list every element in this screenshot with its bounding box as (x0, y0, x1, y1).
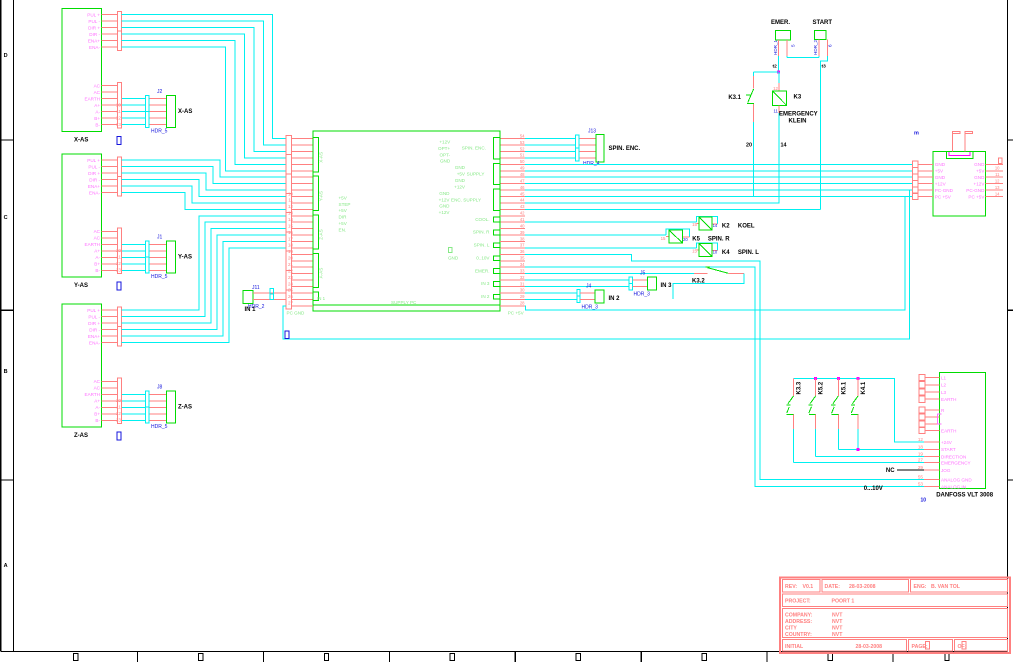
svg-text:41: 41 (520, 217, 525, 222)
svg-text:K4: K4 (722, 250, 730, 256)
svg-text:KLEIN: KLEIN (789, 119, 807, 125)
svg-text:D: D (4, 53, 8, 59)
svg-text:16: 16 (288, 230, 294, 235)
svg-text:48: 48 (520, 172, 525, 177)
svg-text:PC-GND: PC-GND (966, 188, 985, 193)
svg-text:EARTH: EARTH (941, 397, 957, 402)
svg-text:+12V: +12V (439, 210, 451, 215)
svg-text:13: 13 (995, 185, 1000, 190)
svg-text:EARTH: EARTH (85, 97, 101, 102)
svg-text:J11: J11 (252, 285, 260, 291)
svg-text:L1: L1 (941, 376, 947, 381)
svg-text:36: 36 (520, 249, 525, 254)
svg-text:Z-AS: Z-AS (74, 433, 88, 439)
svg-text:ENA-: ENA- (89, 340, 100, 345)
svg-text:K2: K2 (722, 223, 730, 229)
svg-text:15: 15 (692, 249, 697, 254)
svg-text:GND: GND (455, 165, 466, 170)
svg-text:+5V: +5V (457, 172, 466, 177)
svg-text:+24V: +24V (941, 440, 953, 445)
svg-text:ENA-: ENA- (89, 45, 100, 50)
svg-text:52: 52 (520, 146, 525, 151)
svg-text:X-AS: X-AS (74, 138, 88, 144)
svg-text:15: 15 (692, 222, 697, 227)
svg-text:EN.: EN. (339, 228, 347, 233)
svg-text:SPIN. ENC.: SPIN. ENC. (462, 146, 486, 151)
svg-text:A+: A+ (94, 399, 100, 404)
svg-text:DIRECTION: DIRECTION (941, 454, 966, 459)
svg-text:13: 13 (116, 122, 121, 127)
svg-text:PUL -: PUL - (88, 164, 100, 169)
svg-text:AC: AC (94, 229, 101, 234)
svg-text:DIR +: DIR + (88, 321, 100, 326)
svg-text:34: 34 (520, 262, 525, 267)
svg-text:15: 15 (288, 223, 294, 228)
svg-text:DIR -: DIR - (89, 177, 100, 182)
svg-text:28-03-2008: 28-03-2008 (856, 644, 883, 650)
svg-text:IN 2: IN 2 (609, 296, 621, 302)
svg-text:START: START (941, 447, 956, 452)
svg-text:C: C (4, 215, 8, 221)
svg-text:PC +5V: PC +5V (968, 194, 985, 199)
svg-text:J1: J1 (157, 235, 163, 241)
svg-text:STEP: STEP (339, 202, 351, 207)
svg-text:Z-AS: Z-AS (178, 405, 192, 411)
svg-text:SUPPLY PC: SUPPLY PC (391, 300, 417, 305)
svg-text:0..10V: 0..10V (476, 256, 490, 261)
svg-text:PC GND: PC GND (287, 311, 306, 316)
svg-text:GND: GND (439, 204, 450, 209)
svg-text:A-: A- (95, 255, 100, 260)
svg-text:IN 3: IN 3 (481, 281, 490, 286)
svg-text:L3: L3 (941, 390, 947, 395)
svg-text:51: 51 (520, 153, 525, 158)
svg-text:J13: J13 (588, 129, 596, 135)
svg-text:ENC. SUPPLY: ENC. SUPPLY (451, 197, 481, 202)
svg-text:6: 6 (828, 44, 833, 47)
svg-text:B-: B- (95, 418, 100, 423)
svg-text:EARTH: EARTH (85, 392, 101, 397)
svg-text:L2: L2 (941, 383, 947, 388)
svg-text:EMER.: EMER. (771, 20, 790, 26)
svg-text:12: 12 (116, 115, 121, 120)
svg-text:23: 23 (288, 275, 294, 280)
svg-text:+12V: +12V (454, 184, 466, 189)
svg-text:A-: A- (95, 110, 100, 115)
svg-text:B+: B+ (94, 262, 100, 267)
svg-text:V0.1: V0.1 (803, 584, 814, 590)
svg-text:38: 38 (520, 236, 525, 241)
svg-text:42: 42 (520, 211, 525, 216)
svg-text:13: 13 (116, 268, 121, 273)
svg-text:PROJECT:: PROJECT: (785, 599, 811, 605)
svg-text:OPT+: OPT+ (438, 146, 450, 151)
svg-text:SPIN. R: SPIN. R (708, 237, 730, 243)
svg-text:SPIN. L: SPIN. L (474, 243, 490, 248)
svg-text:ENA+: ENA+ (88, 334, 100, 339)
svg-text:14: 14 (713, 223, 718, 228)
svg-text:ANALOG IN: ANALOG IN (941, 485, 966, 490)
svg-text:B-: B- (95, 123, 100, 128)
svg-text:CITY: CITY (785, 626, 797, 632)
svg-text:19: 19 (918, 451, 924, 456)
svg-text:13: 13 (116, 418, 121, 423)
svg-text:29: 29 (918, 465, 924, 470)
svg-text:44: 44 (520, 198, 525, 203)
svg-text:PC +5V: PC +5V (508, 311, 525, 316)
svg-text:J8: J8 (157, 385, 163, 391)
svg-text:DATE:: DATE: (825, 584, 841, 590)
svg-text:47: 47 (520, 178, 525, 183)
svg-text:54: 54 (520, 133, 525, 138)
svg-text:NVT: NVT (832, 626, 843, 632)
svg-text:12: 12 (995, 178, 1000, 183)
svg-text:COUNTRY:: COUNTRY: (785, 632, 812, 638)
svg-text:ANALOG GND: ANALOG GND (941, 477, 972, 482)
svg-text:GND: GND (974, 162, 985, 167)
svg-text:B+: B+ (94, 412, 100, 417)
svg-text:HDR_5: HDR_5 (151, 129, 168, 135)
svg-text:10: 10 (921, 498, 927, 504)
svg-text:K5.1: K5.1 (841, 381, 847, 394)
svg-text:J2: J2 (157, 89, 163, 95)
svg-text:10: 10 (713, 250, 718, 255)
svg-text:EARTH: EARTH (941, 428, 957, 433)
svg-text:PUL +: PUL + (87, 158, 100, 163)
svg-text:14: 14 (288, 217, 294, 222)
svg-text:25: 25 (288, 288, 294, 293)
svg-text:A+: A+ (94, 249, 100, 254)
svg-text:GND: GND (440, 159, 451, 164)
svg-text:EARTH: EARTH (85, 242, 101, 247)
svg-text:20: 20 (683, 237, 688, 242)
svg-text:11: 11 (288, 198, 293, 203)
svg-text:5: 5 (791, 44, 796, 47)
svg-text:PUL +: PUL + (87, 12, 100, 17)
svg-text:13: 13 (288, 211, 294, 216)
svg-text:GND: GND (935, 162, 946, 167)
svg-text:DIR: DIR (339, 215, 348, 220)
svg-text:21: 21 (288, 262, 294, 267)
svg-text:K3.1: K3.1 (728, 95, 741, 101)
svg-text:t3: t3 (822, 64, 827, 70)
svg-text:31: 31 (520, 281, 525, 286)
svg-text:27: 27 (918, 457, 924, 462)
svg-text:+5V: +5V (339, 208, 348, 213)
svg-text:37: 37 (520, 243, 525, 248)
svg-text:GND: GND (455, 178, 466, 183)
svg-text:43: 43 (520, 204, 525, 209)
svg-text:10: 10 (995, 166, 1000, 171)
svg-text:K4.1: K4.1 (861, 381, 867, 394)
svg-text:IN 3: IN 3 (661, 283, 673, 289)
svg-text:KOEL: KOEL (738, 223, 755, 229)
svg-text:49: 49 (520, 166, 525, 171)
svg-text:AC: AC (94, 386, 101, 391)
svg-text:35: 35 (520, 256, 525, 261)
svg-text:COOL.: COOL. (475, 217, 489, 222)
svg-text:J4: J4 (586, 283, 592, 289)
svg-text:AC: AC (94, 236, 101, 241)
svg-text:K3.3: K3.3 (797, 381, 803, 394)
svg-text:33: 33 (520, 268, 525, 273)
svg-text:40: 40 (520, 223, 525, 228)
svg-text:t2: t2 (773, 64, 778, 70)
svg-text:+5V: +5V (339, 221, 348, 226)
svg-text:A-: A- (95, 405, 100, 410)
svg-text:17: 17 (288, 236, 294, 241)
svg-text:HDR_3: HDR_3 (634, 292, 651, 298)
svg-text:AC: AC (94, 379, 101, 384)
svg-text:K5.2: K5.2 (819, 381, 825, 394)
svg-text:10: 10 (288, 191, 294, 196)
svg-text:B. VAN TOL: B. VAN TOL (931, 584, 961, 590)
svg-text:12: 12 (116, 411, 121, 416)
svg-text:X-AS: X-AS (319, 152, 324, 163)
svg-text:EMERGENCY: EMERGENCY (941, 460, 971, 465)
svg-text:DIR +: DIR + (88, 171, 100, 176)
svg-text:30: 30 (520, 288, 525, 293)
svg-text:HDR_5: HDR_5 (151, 274, 168, 280)
svg-text:INITIAL: INITIAL (785, 644, 804, 650)
svg-text:18: 18 (288, 243, 294, 248)
svg-text:SPIN. ENC.: SPIN. ENC. (609, 146, 641, 152)
svg-text:19: 19 (288, 249, 294, 254)
svg-text:53: 53 (918, 482, 924, 487)
svg-text:GND: GND (974, 175, 985, 180)
svg-text:NC: NC (886, 468, 895, 474)
svg-text:PC +5V: PC +5V (935, 194, 952, 199)
svg-text:IN 2: IN 2 (481, 294, 490, 299)
svg-text:0...10V: 0...10V (864, 486, 883, 492)
svg-text:HDR_5: HDR_5 (151, 424, 168, 430)
svg-text:A+: A+ (94, 103, 100, 108)
svg-text:20: 20 (746, 143, 752, 149)
svg-text:HDR_1: HDR_1 (773, 39, 778, 55)
svg-text:ENA+: ENA+ (88, 184, 100, 189)
svg-text:20: 20 (288, 256, 294, 261)
svg-text:46: 46 (520, 185, 525, 190)
svg-text:GND: GND (448, 256, 459, 261)
svg-text:START: START (813, 20, 833, 26)
svg-text:12: 12 (773, 86, 778, 91)
svg-text:SPIN. R: SPIN. R (473, 230, 490, 235)
svg-text:X-AS: X-AS (178, 109, 192, 115)
svg-text:COMPANY:: COMPANY: (785, 613, 813, 619)
svg-text:ADDRESS:: ADDRESS: (785, 619, 812, 625)
svg-text:53: 53 (520, 140, 525, 145)
svg-text:REV:: REV: (785, 584, 797, 590)
svg-text:J5: J5 (640, 271, 646, 277)
svg-text:B+: B+ (94, 116, 100, 121)
svg-text:GND: GND (439, 191, 450, 196)
svg-text:NVT: NVT (832, 619, 843, 625)
svg-text:27: 27 (288, 301, 294, 306)
svg-text:SPIN. L: SPIN. L (738, 250, 759, 256)
svg-text:K3: K3 (794, 95, 802, 101)
svg-text:28-03-2008: 28-03-2008 (849, 584, 876, 590)
svg-text:28: 28 (520, 301, 525, 306)
svg-text:12: 12 (116, 261, 121, 266)
svg-text:18: 18 (918, 444, 924, 449)
svg-text:50: 50 (520, 159, 525, 164)
svg-text:32: 32 (520, 275, 525, 280)
svg-text:DIR +: DIR + (88, 25, 100, 30)
svg-text:DIR -: DIR - (89, 32, 100, 37)
svg-text:24: 24 (288, 281, 294, 286)
svg-text:PUL -: PUL - (88, 19, 100, 24)
svg-text:EMERGENCY: EMERGENCY (779, 112, 818, 118)
svg-text:11: 11 (773, 109, 778, 114)
svg-text:OPT-: OPT- (439, 152, 450, 157)
svg-text:15: 15 (661, 236, 666, 241)
svg-text:+12V: +12V (439, 139, 451, 144)
svg-text:PUL -: PUL - (88, 314, 100, 319)
svg-text:55: 55 (918, 475, 924, 480)
svg-text:ENG:: ENG: (914, 584, 927, 590)
svg-text:GND: GND (935, 175, 946, 180)
svg-text:DIR -: DIR - (89, 327, 100, 332)
svg-text:12: 12 (918, 437, 924, 442)
svg-text:K5: K5 (692, 237, 700, 243)
svg-text:EMER.: EMER. (475, 268, 490, 273)
svg-text:Y-AS: Y-AS (178, 255, 192, 261)
svg-text:HDR_2: HDR_2 (813, 39, 818, 55)
svg-text:Y-AS: Y-AS (74, 283, 88, 289)
svg-text:14: 14 (995, 191, 1000, 196)
svg-text:+5V: +5V (339, 195, 348, 200)
svg-text:ENA+: ENA+ (88, 38, 100, 43)
svg-text:39: 39 (520, 230, 525, 235)
svg-text:NVT: NVT (832, 613, 843, 619)
svg-text:B-: B- (95, 268, 100, 273)
svg-text:A-AS: A-AS (319, 268, 324, 279)
svg-text:29: 29 (520, 294, 525, 299)
svg-text:+12V: +12V (935, 182, 947, 187)
svg-text:ENA-: ENA- (89, 190, 100, 195)
svg-text:PC-GND: PC-GND (935, 188, 954, 193)
svg-text:JOG: JOG (941, 468, 951, 473)
svg-text:IN 1: IN 1 (245, 307, 257, 313)
svg-text:POORT 1: POORT 1 (832, 599, 855, 605)
svg-text:45: 45 (520, 191, 525, 196)
svg-text:12: 12 (288, 204, 294, 209)
svg-text:22: 22 (288, 268, 294, 273)
svg-text:Z-AS: Z-AS (319, 229, 324, 239)
svg-text:NVT: NVT (832, 632, 843, 638)
svg-text:+12V: +12V (439, 197, 451, 202)
svg-text:m: m (914, 131, 919, 137)
svg-text:SUPPLY: SUPPLY (467, 172, 485, 177)
svg-text:+5V: +5V (976, 169, 985, 174)
svg-text:PUL +: PUL + (87, 308, 100, 313)
svg-text:11: 11 (995, 172, 1000, 177)
svg-text:Y-AS: Y-AS (319, 191, 324, 201)
svg-text:AC: AC (94, 84, 101, 89)
svg-text:B: B (4, 369, 8, 375)
svg-text:IN 1: IN 1 (317, 296, 326, 301)
svg-text:+5V: +5V (935, 169, 944, 174)
svg-text:AC: AC (94, 90, 101, 95)
svg-text:14: 14 (781, 143, 787, 149)
svg-text:DANFOSS VLT 3008: DANFOSS VLT 3008 (936, 493, 994, 499)
svg-text:26: 26 (288, 294, 294, 299)
svg-text:A: A (4, 563, 8, 569)
svg-text:+12V: +12V (974, 182, 986, 187)
